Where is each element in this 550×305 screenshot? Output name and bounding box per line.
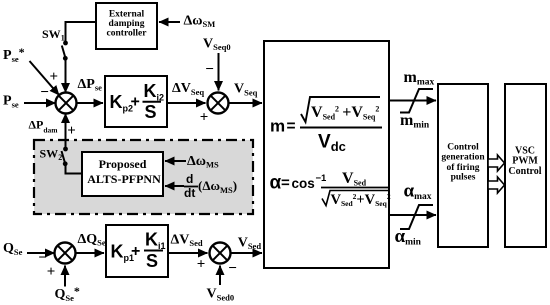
svg-text:d: d (186, 172, 193, 186)
svg-text:damping: damping (109, 19, 145, 29)
svg-text:−: − (228, 261, 237, 277)
svg-text:pulses: pulses (451, 173, 476, 183)
svg-text:+: + (197, 257, 206, 273)
svg-text:=: = (287, 118, 296, 135)
svg-text:+: + (67, 123, 76, 139)
svg-text:of firing: of firing (447, 163, 480, 173)
svg-text:−: − (40, 84, 49, 100)
svg-text:dt: dt (184, 186, 195, 200)
svg-text:α: α (270, 173, 282, 194)
svg-text:S: S (146, 251, 158, 271)
svg-text:PWM: PWM (512, 156, 538, 167)
svg-text:Proposed: Proposed (99, 157, 147, 171)
svg-text:+: + (131, 243, 140, 260)
svg-text:controller: controller (107, 29, 148, 39)
svg-text:cos: cos (292, 176, 315, 191)
svg-text:m: m (270, 117, 285, 136)
svg-text:−: − (205, 62, 214, 78)
svg-text:+: + (131, 94, 140, 111)
svg-text:=: = (281, 175, 290, 192)
svg-text:Control: Control (447, 143, 479, 153)
svg-text:+: + (200, 110, 209, 126)
svg-text:generation: generation (441, 153, 485, 163)
svg-text:+: + (47, 264, 56, 280)
svg-text:−: − (38, 250, 47, 266)
svg-text:External: External (109, 10, 145, 20)
svg-text:S: S (145, 102, 157, 122)
svg-text:Control: Control (508, 166, 541, 177)
svg-text:ALTS-PFPNN: ALTS-PFPNN (87, 172, 161, 186)
svg-text:+: + (50, 69, 59, 85)
svg-text:−1: −1 (316, 173, 328, 184)
